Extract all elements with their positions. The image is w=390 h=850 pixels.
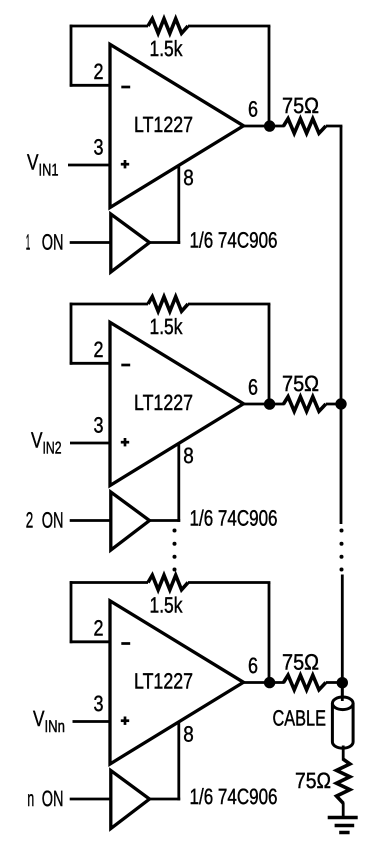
non-inverting input plus sign, stage n [121, 717, 129, 725]
resistor R3 1.5k feedback, stage 2 [148, 297, 188, 312]
wire: pin 8 disable vertical, stage 1 [177, 165, 180, 244]
wire: inverting input (pin 2) stub, stage 2 [70, 362, 110, 365]
wire: inverting input (pin 2) stub, stage n [70, 640, 110, 643]
resistor RT 75 ohm cable terminator [337, 759, 350, 803]
dotted continuation: channels between stage 2 and stage n [173, 529, 177, 572]
svg-text:1/6 74C906: 1/6 74C906 [190, 784, 278, 809]
svg-text:3: 3 [94, 135, 104, 160]
svg-text:6: 6 [248, 97, 258, 122]
wire: terminator to ground [342, 803, 345, 818]
non-inverting input plus sign, stage 1 [121, 160, 129, 168]
wire: feedback left vertical, stage n [70, 581, 73, 643]
resistor R1 1.5k feedback, stage 1 [148, 19, 188, 34]
wire: feedback top left segment, stage n [70, 581, 148, 584]
wire: buffer output to pin 8, stage n [149, 798, 181, 801]
op-amp A3 LT1227 triangle, stage n [110, 601, 244, 764]
svg-text:CABLE: CABLE [273, 706, 327, 731]
wire: feedback right vertical drop to output node, stage 1 [268, 26, 271, 126]
svg-text:IN2: IN2 [43, 439, 62, 458]
svg-text:75Ω: 75Ω [282, 371, 319, 396]
wire: feedback top right segment, stage n [188, 581, 270, 584]
wire: feedback left vertical, stage 2 [70, 303, 73, 365]
resistor R6 75 ohm back-termination, stage n [284, 675, 326, 690]
svg-text:1/6 74C906: 1/6 74C906 [190, 506, 278, 531]
wire: output (pin 6), stage 1 [243, 125, 285, 128]
dotted continuation: bus between stage 2 and stage n [340, 529, 344, 572]
svg-text:1.5k: 1.5k [150, 314, 184, 339]
svg-text:3: 3 [94, 413, 104, 438]
svg-text:2: 2 [94, 616, 104, 641]
wire: output (pin 6), stage 2 [243, 403, 285, 406]
svg-text:IN1: IN1 [39, 161, 59, 180]
svg-text:75Ω: 75Ω [282, 650, 319, 675]
svg-text:2: 2 [94, 337, 104, 362]
node: output junction dot, stage 1 [264, 120, 275, 131]
node: bus junction dot, stage n [337, 677, 348, 688]
svg-text:LT1227: LT1227 [134, 669, 193, 694]
ground symbol [328, 818, 358, 833]
non-inverting input plus sign, stage 2 [121, 438, 129, 446]
wire: feedback top right segment, stage 2 [188, 303, 270, 306]
svg-text:V: V [33, 706, 45, 731]
svg-text:2: 2 [94, 59, 104, 84]
wire: stub into cable top [341, 688, 344, 701]
wire: cable to terminator RT [342, 746, 345, 761]
wire: enable input to buffer, stage 1 [70, 241, 111, 244]
svg-text:nON: nON [27, 786, 63, 811]
wire: R4 to output bus, stage 2 [326, 403, 343, 406]
buffer U1b 74C906 triangle, stage 2 [111, 492, 150, 550]
wire: buffer output to pin 8, stage 2 [149, 519, 181, 522]
resistor R4 75 ohm back-termination, stage 2 [284, 397, 326, 412]
svg-text:2ON: 2ON [26, 508, 64, 533]
wire: R2 to output bus, stage 1 [326, 125, 343, 128]
wire: non-inverting input (pin 3), stage n [73, 720, 111, 723]
svg-text:6: 6 [248, 653, 258, 678]
inverting input minus sign, stage 1 [121, 86, 130, 89]
wire: feedback right vertical drop to output node, stage 2 [268, 304, 271, 404]
wire: feedback top left segment, stage 2 [70, 303, 148, 306]
wire: output bus vertical (stage 1 to dotted break) [340, 126, 343, 524]
svg-text:8: 8 [183, 722, 194, 747]
node: output junction dot, stage 2 [264, 398, 275, 409]
wire: R6 to output bus, stage n [326, 681, 343, 684]
coax cable body [332, 703, 353, 748]
wire: pin 8 disable vertical, stage 2 [177, 443, 180, 522]
resistor R2 75 ohm back-termination, stage 1 [284, 119, 326, 134]
wire: enable input to buffer, stage 2 [70, 519, 111, 522]
wire: enable input to buffer, stage n [70, 798, 111, 801]
svg-text:3: 3 [94, 691, 104, 716]
buffer U1a 74C906 triangle, stage 1 [111, 214, 150, 272]
wire: output (pin 6), stage n [243, 681, 285, 684]
wire: non-inverting input (pin 3), stage 1 [68, 164, 110, 167]
op-amp A2 LT1227 triangle, stage 2 [110, 322, 244, 485]
op-amp A1 LT1227 triangle, stage 1 [110, 44, 244, 207]
svg-text:INn: INn [45, 717, 66, 736]
coax cable top opening ellipse [332, 697, 353, 710]
buffer U1c 74C906 triangle, stage n [111, 771, 150, 829]
wire: pin 8 disable vertical, stage n [177, 722, 180, 801]
svg-text:LT1227: LT1227 [134, 390, 193, 415]
svg-text:75Ω: 75Ω [295, 768, 331, 793]
svg-text:V: V [31, 428, 43, 453]
inverting input minus sign, stage n [121, 642, 130, 645]
resistor R5 1.5k feedback, stage n [148, 575, 188, 590]
svg-text:1ON: 1ON [26, 230, 64, 255]
node: bus junction dot, stage 2 [335, 398, 346, 409]
wire: feedback top right segment, stage 1 [188, 25, 270, 28]
svg-text:6: 6 [248, 375, 258, 400]
wire: feedback left vertical, stage 1 [70, 25, 73, 87]
wire: feedback top left segment, stage 1 [70, 25, 148, 28]
svg-text:1.5k: 1.5k [150, 36, 184, 61]
svg-text:8: 8 [183, 443, 194, 468]
svg-text:8: 8 [183, 165, 194, 190]
svg-text:1/6 74C906: 1/6 74C906 [190, 228, 278, 253]
wire: non-inverting input (pin 3), stage 2 [70, 442, 110, 445]
svg-text:1.5k: 1.5k [150, 593, 184, 618]
node: output junction dot, stage n [264, 677, 275, 688]
wire: inverting input (pin 2) stub, stage 1 [70, 84, 110, 87]
wire: feedback right vertical drop to output node, stage n [268, 583, 271, 683]
wire: output bus vertical (dotted break to cable) [341, 575, 344, 700]
svg-text:V: V [27, 150, 39, 175]
wire: buffer output to pin 8, stage 1 [149, 241, 181, 244]
svg-text:75Ω: 75Ω [282, 93, 319, 118]
inverting input minus sign, stage 2 [121, 364, 130, 367]
svg-text:LT1227: LT1227 [134, 112, 193, 137]
